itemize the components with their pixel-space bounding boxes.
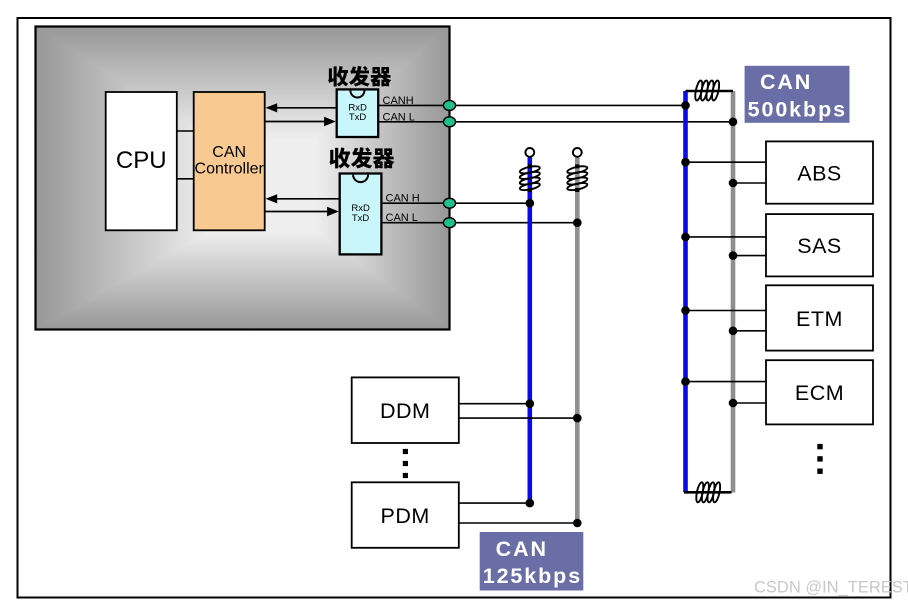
wire ETM CAN L (733, 330, 766, 332)
wire DDM CAN H (459, 403, 530, 405)
wire CANH U1 to blue bus (378, 104, 685, 106)
wire ECM CAN L (733, 402, 766, 404)
wire CAN H U2 to blue mid bus (381, 202, 529, 204)
svg-text:SAS: SAS (797, 234, 842, 258)
ECU ECM (766, 360, 873, 424)
svg-text:Controller: Controller (195, 161, 265, 178)
wire ETM CAN H (686, 310, 767, 312)
label CAN 500kbps (745, 66, 850, 123)
svg-text:CANH: CANH (383, 95, 414, 107)
label transceiver U1 (shou fa qi) (328, 66, 391, 87)
wire CAN L U2 to gray mid bus (381, 222, 577, 224)
terminating resistor top (694, 80, 721, 101)
gray 125kbps bus CAN L (575, 157, 580, 523)
terminating resistor bottom (695, 482, 722, 503)
junction ECM / gray bus (729, 399, 738, 408)
arrow controller to U2 TxD (right) (265, 207, 339, 216)
junction DDM / blue bus (526, 399, 535, 408)
junction ETM / blue bus (681, 306, 690, 315)
CAN Controller (194, 92, 265, 230)
junction ETM / gray bus (729, 327, 738, 336)
junction ABS / gray bus (729, 179, 738, 188)
junction PDM / gray bus (573, 519, 582, 528)
ellipsis between DDM and PDM (403, 449, 408, 478)
ECU module box (36, 27, 450, 330)
svg-text:ECM: ECM (795, 381, 844, 405)
svg-text:ABS: ABS (797, 161, 842, 185)
node CAN L U2 (443, 218, 455, 228)
junction U1 CANL / gray bus (729, 118, 738, 127)
svg-text:CAN: CAN (212, 144, 246, 161)
svg-text:125kbps: 125kbps (483, 564, 582, 588)
node CAN H U2 (443, 198, 455, 208)
wire PDM CAN L (459, 522, 578, 524)
junction SAS / blue bus (681, 233, 690, 242)
wire SAS CAN H (686, 236, 767, 238)
wire bottom terminator (684, 491, 732, 494)
wire ECM CAN H (686, 381, 767, 383)
node CANH U1 (443, 100, 455, 110)
wire CAN L U1 to gray bus (378, 121, 733, 123)
blue 125kbps bus CAN H (527, 157, 532, 503)
wire top terminator (686, 90, 734, 93)
transceiver U2 (340, 174, 382, 255)
gray 500kbps bus CAN L (731, 91, 736, 493)
junction ABS / blue bus (681, 158, 690, 167)
transceiver U1 (337, 89, 379, 137)
svg-text:CSDN @IN_TEREST: CSDN @IN_TEREST (754, 579, 908, 597)
wire SAS CAN L (733, 255, 766, 257)
junction SAS / gray bus (729, 251, 738, 260)
svg-text:ETM: ETM (796, 307, 843, 331)
svg-text:TxD: TxD (349, 112, 367, 123)
junction U2 CAN L / gray bus (573, 218, 582, 227)
open terminal gray bus (573, 148, 582, 157)
svg-text:CAN: CAN (760, 70, 812, 94)
inductor on blue 125k bus (519, 164, 540, 192)
wire PDM CAN H (459, 502, 530, 504)
junction DDM / gray bus (573, 414, 582, 423)
CPU (106, 92, 177, 230)
ECU SAS (766, 214, 873, 276)
DDM (352, 377, 459, 443)
blue 500kbps bus CAN H (683, 91, 688, 492)
ellipsis more ECUs (817, 444, 822, 474)
svg-text:DDM: DDM (380, 399, 430, 423)
wire DDM CAN L (459, 417, 578, 419)
wire ABS CAN H (686, 161, 767, 163)
PDM (352, 482, 459, 548)
junction ECM / blue bus (681, 377, 690, 386)
svg-text:500kbps: 500kbps (748, 98, 847, 122)
wire CPU-controller upper (177, 130, 194, 132)
svg-text:CAN: CAN (496, 537, 548, 561)
junction U2 CAN H / blue bus (526, 199, 535, 208)
svg-text:CAN L: CAN L (383, 111, 415, 123)
ECU ETM (766, 285, 873, 350)
svg-text:CAN L: CAN L (386, 212, 418, 224)
inductor on gray 125k bus (567, 164, 588, 192)
wire CPU-controller lower (177, 178, 194, 180)
junction PDM / blue bus (526, 499, 535, 508)
ECU ABS (766, 141, 873, 203)
junction U1 CANH / blue bus (681, 101, 690, 110)
svg-text:PDM: PDM (381, 504, 430, 528)
arrow controller to U2 RxD (left) (266, 194, 340, 203)
svg-text:CPU: CPU (116, 147, 167, 174)
label CAN 125kbps (480, 532, 584, 591)
svg-text:TxD: TxD (352, 213, 370, 224)
node CAN L U1 (443, 117, 455, 127)
label transceiver U2 (shou fa qi) (329, 147, 394, 168)
wire ABS CAN L (733, 182, 766, 184)
svg-text:CAN H: CAN H (386, 192, 420, 204)
arrow controller to U1 TxD (right) (265, 117, 336, 126)
open terminal blue bus (525, 148, 534, 157)
arrow controller to U1 RxD (left) (266, 103, 337, 112)
